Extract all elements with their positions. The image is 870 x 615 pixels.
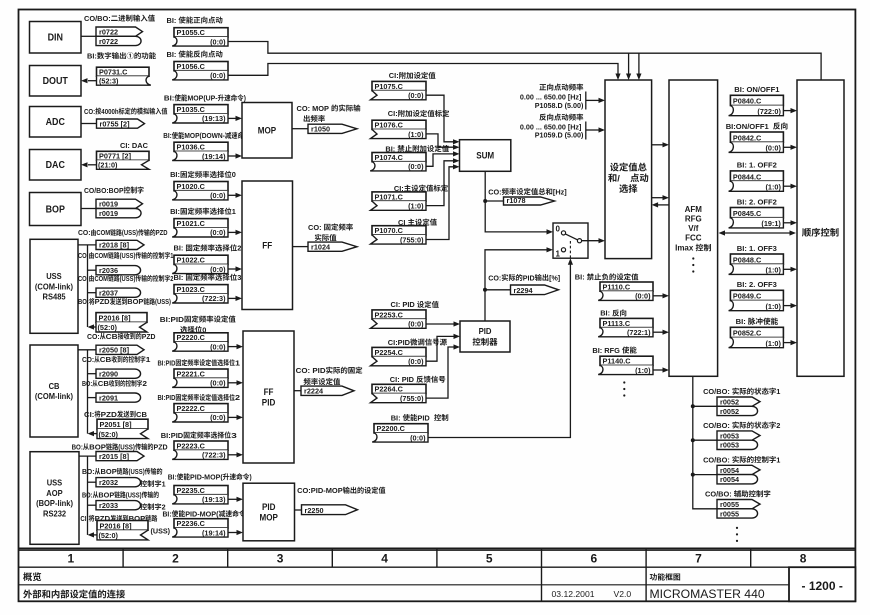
svg-text:(USS): (USS) xyxy=(155,297,171,306)
svg-text:BI:: BI: xyxy=(174,244,184,253)
svg-text:2: 2 xyxy=(237,244,241,253)
svg-text:PID: PID xyxy=(523,273,536,282)
svg-text:V/f: V/f xyxy=(688,224,699,233)
node junction r0053 xyxy=(691,438,695,442)
block MOP xyxy=(242,103,292,159)
wire to r1078 xyxy=(485,200,503,202)
block USS RS485 xyxy=(30,239,78,333)
wire P1070 to SUM xyxy=(426,167,454,240)
block CB xyxy=(30,345,78,437)
svg-text:(722:3): (722:3) xyxy=(202,294,226,303)
svg-text:BOP: BOP xyxy=(101,467,117,476)
svg-text:CO:: CO: xyxy=(78,251,89,260)
wire P1036 to MOP xyxy=(228,155,236,157)
block FF xyxy=(242,181,293,310)
svg-text:(USS): (USS) xyxy=(120,274,136,283)
param P1071.C xyxy=(372,192,426,201)
wire P2236 to PIDMOP xyxy=(228,532,237,534)
param r0722 BO xyxy=(96,36,141,45)
svg-text:P1023.C: P1023.C xyxy=(177,285,206,294)
svg-text:P1070.C: P1070.C xyxy=(375,226,404,235)
svg-text:(COM-link): (COM-link) xyxy=(35,392,73,401)
wire USS bus vertical xyxy=(87,245,89,327)
block DIN xyxy=(30,22,82,54)
svg-text:4000h: 4000h xyxy=(101,107,118,116)
switch dashed control line xyxy=(569,241,571,258)
svg-text:P1020.C: P1020.C xyxy=(177,182,206,191)
svg-text:P2223.C: P2223.C xyxy=(177,441,206,450)
svg-text:CO/BO:: CO/BO: xyxy=(703,387,730,396)
svg-text:CI:PID: CI:PID xyxy=(388,338,411,347)
wire bus to r2032 xyxy=(88,481,97,483)
switch lever xyxy=(565,234,577,240)
wire P1056 to selector xyxy=(228,64,618,77)
svg-text:BI:: BI: xyxy=(575,273,585,282)
param P2223.C xyxy=(174,441,228,450)
wire AFM bottom vertical xyxy=(693,376,717,509)
wire P1140 to AFM xyxy=(653,369,663,371)
svg-text:P0848.C: P0848.C xyxy=(733,255,762,264)
param P2253.C xyxy=(372,310,426,319)
svg-text:(0:0): (0:0) xyxy=(635,292,651,301)
wire P1020 to FF xyxy=(228,194,236,196)
wire selector to AFM 2 xyxy=(652,197,663,199)
wire jog rev arrow xyxy=(586,129,599,131)
svg-text:(BOP-link): (BOP-link) xyxy=(36,499,73,508)
block AFM RFG Vf FCC Imax xyxy=(669,80,718,376)
wire FFPID to r2224 xyxy=(294,390,301,392)
svg-text:P1059.D (5.00): P1059.D (5.00) xyxy=(535,131,584,140)
svg-text:BOP: BOP xyxy=(127,297,143,306)
wire USS bus stub xyxy=(78,244,96,246)
svg-text:ADC: ADC xyxy=(46,117,65,128)
svg-text:CO: MOP: CO: MOP xyxy=(297,104,330,113)
svg-text:(0:0): (0:0) xyxy=(766,144,782,153)
svg-text:(0:0): (0:0) xyxy=(408,357,424,366)
svg-text:P2200.C: P2200.C xyxy=(377,424,406,433)
svg-text:(USS): (USS) xyxy=(118,442,135,451)
label selector line2 xyxy=(608,173,616,182)
svg-text:r2037: r2037 xyxy=(99,289,118,298)
svg-text:CO/BO:: CO/BO: xyxy=(703,421,730,430)
svg-text:(722:0): (722:0) xyxy=(757,107,781,116)
switch contact out xyxy=(577,239,581,243)
svg-text:P1071.C: P1071.C xyxy=(375,192,404,201)
switch contact 0 xyxy=(561,231,565,235)
svg-text:P1036.C: P1036.C xyxy=(177,143,206,152)
param r2036 xyxy=(96,266,141,275)
svg-text:r1078: r1078 xyxy=(507,196,526,205)
wire bus to r2036 xyxy=(88,269,97,271)
svg-text:P1140.C: P1140.C xyxy=(603,357,632,366)
svg-text:PID: PID xyxy=(417,413,430,422)
block DAC xyxy=(30,150,82,181)
table row line xyxy=(19,566,856,568)
svg-text:r0053: r0053 xyxy=(720,431,739,440)
param r1024 xyxy=(308,242,357,251)
param P1113.C xyxy=(600,318,653,327)
wire P1076 to SUM xyxy=(426,134,454,147)
svg-text:BI: ON/OFF1: BI: ON/OFF1 xyxy=(734,85,780,94)
param r2050 [8] xyxy=(96,345,144,354)
svg-text:BO:: BO: xyxy=(82,490,93,499)
svg-text:USS: USS xyxy=(46,272,62,281)
param r2033 xyxy=(96,501,141,510)
svg-text:0: 0 xyxy=(556,225,561,234)
svg-text:PZD: PZD xyxy=(154,442,168,451)
svg-text:r2090: r2090 xyxy=(99,370,118,379)
svg-text:P1035.C: P1035.C xyxy=(177,105,206,114)
svg-text:r0053: r0053 xyxy=(720,441,739,450)
svg-text:2: 2 xyxy=(172,552,179,566)
svg-text:(COM-link): (COM-link) xyxy=(35,282,73,291)
svg-text:r2294: r2294 xyxy=(514,286,534,295)
svg-text:P0731.C: P0731.C xyxy=(99,67,128,76)
param P2016 [8] upper xyxy=(96,313,147,323)
svg-text:- 1200 -: - 1200 - xyxy=(802,579,843,593)
param P2016 [8] lower xyxy=(97,521,148,531)
wire AOP bus vertical xyxy=(87,456,89,535)
svg-text:Imax: Imax xyxy=(675,244,694,253)
svg-text:3: 3 xyxy=(277,552,284,566)
svg-text:r0019: r0019 xyxy=(99,200,118,209)
svg-text:03.12.2001: 03.12.2001 xyxy=(552,589,595,599)
svg-text:r0054: r0054 xyxy=(720,475,740,484)
svg-text:DIN: DIN xyxy=(48,33,63,44)
wire P1021 to FF xyxy=(228,231,236,233)
svg-text:(52:3): (52:3) xyxy=(99,76,119,85)
svg-text:(USS): (USS) xyxy=(120,251,136,260)
wire ADC to r0755 xyxy=(81,123,97,125)
label CO: fixed freq actual l2 xyxy=(315,234,336,241)
svg-text:FF: FF xyxy=(262,240,272,250)
svg-text:P1022.C: P1022.C xyxy=(177,256,206,265)
svg-text:DAC: DAC xyxy=(46,160,65,171)
svg-text:(1:0): (1:0) xyxy=(766,266,782,275)
wire PID up to switch xyxy=(485,250,547,321)
svg-text:r0755 [2]: r0755 [2] xyxy=(100,119,131,128)
label ctrl word 2 xyxy=(140,503,161,510)
svg-text:1: 1 xyxy=(235,358,240,367)
svg-text:BI: 2. OFF2: BI: 2. OFF2 xyxy=(737,197,777,206)
svg-text:P2253.C: P2253.C xyxy=(375,310,404,319)
svg-text:1: 1 xyxy=(232,207,236,216)
svg-text:(1:0): (1:0) xyxy=(766,339,782,348)
block PID MOP xyxy=(243,483,295,541)
dots in AFM xyxy=(692,257,694,259)
svg-text:CB: CB xyxy=(49,382,60,391)
param r2037 xyxy=(96,288,141,297)
svg-text:(19:14): (19:14) xyxy=(202,152,226,161)
wire switch output xyxy=(582,240,599,242)
svg-text:(0:0): (0:0) xyxy=(210,228,226,237)
wire P2254 to PID xyxy=(426,336,454,361)
svg-text:BI: 1. OFF3: BI: 1. OFF3 xyxy=(737,244,777,253)
wire to r2294 xyxy=(485,289,511,291)
box page number xyxy=(789,567,855,601)
wire P1023 to FF xyxy=(228,297,236,299)
svg-text:P0771 [2]: P0771 [2] xyxy=(99,152,132,161)
label CO: PID actual fixed l2 xyxy=(304,378,341,385)
param r2091 xyxy=(96,393,141,402)
wire BOP to r0019 xyxy=(81,208,96,210)
param P2254.C xyxy=(372,347,426,356)
param P1070.C xyxy=(372,226,426,235)
param r2032 xyxy=(96,478,141,487)
dots below P1140 xyxy=(623,381,625,383)
param P1076.C xyxy=(372,120,426,129)
svg-text:(19:1): (19:1) xyxy=(761,219,781,228)
svg-text:BI: 2. OFF3: BI: 2. OFF3 xyxy=(737,280,777,289)
param P1035.C xyxy=(174,105,228,114)
svg-text:USS: USS xyxy=(47,479,63,488)
wire FF to r1024 xyxy=(293,246,309,248)
svg-text:r2050 [8]: r2050 [8] xyxy=(99,346,130,355)
svg-text:(1:0): (1:0) xyxy=(408,202,424,211)
block BOP xyxy=(30,193,82,226)
wire P2223 to FFPID xyxy=(228,454,237,456)
svg-text:CO:: CO: xyxy=(488,187,501,196)
svg-text:BI:: BI: xyxy=(87,51,97,60)
svg-text:CI: PID: CI: PID xyxy=(390,375,415,384)
wire P1071 to SUM xyxy=(426,161,454,206)
param P1021.C xyxy=(174,219,228,228)
switch contact 1 xyxy=(561,248,565,252)
svg-text:P2051 [8]: P2051 [8] xyxy=(100,420,133,429)
svg-text:8: 8 xyxy=(800,552,807,566)
wire CB bus stub xyxy=(78,349,96,351)
svg-text:CI: PID: CI: PID xyxy=(391,300,416,309)
svg-text:CO:: CO: xyxy=(84,107,95,116)
svg-text:(0:0): (0:0) xyxy=(408,320,424,329)
svg-text:7: 7 xyxy=(695,552,702,566)
svg-text:CO:: CO: xyxy=(82,355,94,364)
svg-text:CO:: CO: xyxy=(308,223,322,232)
svg-text:BI:: BI: xyxy=(174,273,184,282)
param r2224 xyxy=(301,386,354,395)
wire P2016b to AOP bus xyxy=(93,534,97,536)
svg-text:1: 1 xyxy=(776,455,780,464)
svg-text:BI:: BI: xyxy=(736,317,746,326)
block USS AOP xyxy=(30,452,79,545)
table mid line xyxy=(19,584,790,586)
block SUM xyxy=(460,140,511,172)
wire P1022 to FF xyxy=(228,268,236,270)
svg-text:r0722: r0722 xyxy=(99,37,118,46)
svg-text:P0852.C: P0852.C xyxy=(733,329,762,338)
param P2221.C xyxy=(174,369,228,378)
wire P2220 to FFPID xyxy=(228,346,237,348)
wire bus to r2091 xyxy=(88,397,97,399)
svg-text:P2235.C: P2235.C xyxy=(177,486,206,495)
svg-text:BI: RFG: BI: RFG xyxy=(592,346,620,355)
param P1036.C xyxy=(174,142,228,151)
svg-text:P1075.C: P1075.C xyxy=(375,82,404,91)
svg-text:MOP(UP-: MOP(UP- xyxy=(188,94,219,103)
wire SUM down to switch xyxy=(485,171,547,232)
svg-text:BO:: BO: xyxy=(82,379,92,388)
svg-text:(1:0): (1:0) xyxy=(408,130,424,139)
svg-text:P2016 [8]: P2016 [8] xyxy=(99,314,132,323)
svg-text:(52:0): (52:0) xyxy=(99,430,119,439)
wire bus to r2037 xyxy=(88,292,97,294)
svg-text:(USS): (USS) xyxy=(151,527,171,536)
svg-text:CI:: CI: xyxy=(84,410,94,419)
svg-text:CO/BO:BOP: CO/BO:BOP xyxy=(84,186,124,195)
svg-text:3: 3 xyxy=(231,431,237,440)
svg-text:CB: CB xyxy=(136,410,147,419)
param P2051 [8] xyxy=(97,419,148,429)
svg-text:MOP(DOWN-: MOP(DOWN- xyxy=(184,131,225,140)
svg-text:r0052: r0052 xyxy=(720,398,739,407)
label selector line1 xyxy=(610,163,647,172)
wire P1113 to AFM xyxy=(653,331,663,333)
svg-text:BI:: BI: xyxy=(163,509,172,518)
svg-text:MOP: MOP xyxy=(260,512,279,522)
svg-text:[%]: [%] xyxy=(549,273,561,282)
svg-text:1: 1 xyxy=(146,355,151,364)
label title connections xyxy=(23,590,125,599)
svg-text:r1024: r1024 xyxy=(311,243,331,252)
param P1056.C xyxy=(174,62,228,71)
svg-text:COM: COM xyxy=(96,228,110,237)
label overview xyxy=(23,572,41,581)
wire P1075 to SUM xyxy=(426,95,454,142)
svg-text:P0840.C: P0840.C xyxy=(733,97,762,106)
svg-text:BOP: BOP xyxy=(46,205,66,216)
svg-text:P1058.D (5.00): P1058.D (5.00) xyxy=(535,101,584,110)
node SUM-r1078 junction xyxy=(483,199,487,203)
param P1075.C xyxy=(372,81,426,90)
svg-text:4: 4 xyxy=(381,552,388,566)
param r1050 xyxy=(308,124,357,133)
svg-text:(21:0): (21:0) xyxy=(98,161,118,170)
label jog fwd freq xyxy=(539,84,583,91)
block setpoint-jog selector xyxy=(605,80,652,259)
param P1022.C xyxy=(174,255,228,264)
svg-text:r0054: r0054 xyxy=(720,466,740,475)
block DOUT xyxy=(30,66,82,97)
wire P2264 to PID xyxy=(426,347,454,398)
wire P1055 to selector xyxy=(228,42,821,81)
svg-text:0: 0 xyxy=(232,170,236,179)
wire bus to r2033 xyxy=(88,504,97,506)
param P0731.C xyxy=(97,67,150,76)
svg-text:P2220.C: P2220.C xyxy=(177,333,206,342)
svg-text:CI:: CI: xyxy=(389,71,399,80)
svg-text:P2222.C: P2222.C xyxy=(177,404,206,413)
svg-text:1: 1 xyxy=(556,250,561,259)
svg-text:P1110.C: P1110.C xyxy=(603,282,631,291)
svg-text:(1:0): (1:0) xyxy=(766,183,782,192)
wire P0731 to DOUT xyxy=(88,80,97,82)
svg-text:BI:ON/OFF1: BI:ON/OFF1 xyxy=(726,122,770,131)
svg-text:r2015 [8]: r2015 [8] xyxy=(99,452,130,461)
label CO: MOP actual output l2 xyxy=(304,115,325,122)
tick jog rev xyxy=(585,122,587,140)
param r0755 [2] xyxy=(97,119,145,128)
svg-text:PID: PID xyxy=(262,397,276,407)
wire P2051 to CB bus xyxy=(93,433,97,435)
param P2220.C xyxy=(174,333,228,342)
svg-text:(0:0): (0:0) xyxy=(210,37,226,46)
svg-text:r2033: r2033 xyxy=(99,501,118,510)
label sequence control text xyxy=(802,228,839,237)
svg-text:BI:: BI: xyxy=(600,309,610,318)
svg-text:FCC: FCC xyxy=(685,234,702,243)
label selector line3 xyxy=(619,184,637,193)
svg-text:P2236.C: P2236.C xyxy=(177,519,206,528)
svg-text:r0055: r0055 xyxy=(720,500,739,509)
label function diagram xyxy=(650,573,680,580)
svg-text:BI:PID: BI:PID xyxy=(158,358,176,367)
svg-text:DOUT: DOUT xyxy=(43,76,68,87)
svg-text:CO:PID-MOP: CO:PID-MOP xyxy=(297,486,343,495)
svg-text:BI:: BI: xyxy=(167,16,177,25)
svg-text:RS232: RS232 xyxy=(43,509,67,518)
svg-text:r0722: r0722 xyxy=(99,28,118,37)
svg-text:P2254.C: P2254.C xyxy=(375,348,404,357)
svg-text:P2016 [8]: P2016 [8] xyxy=(100,521,133,530)
svg-text:1: 1 xyxy=(162,479,166,488)
svg-text:BI:: BI: xyxy=(163,131,171,140)
svg-text:CB: CB xyxy=(100,355,112,364)
svg-text:(USS): (USS) xyxy=(129,467,146,476)
svg-text:r0055: r0055 xyxy=(720,509,739,518)
svg-text:(1:0): (1:0) xyxy=(635,366,651,375)
block PID controller xyxy=(460,321,510,352)
svg-text:BI: 1. OFF2: BI: 1. OFF2 xyxy=(737,161,777,170)
wire DIN to r0722 xyxy=(81,35,96,37)
svg-text:(USS): (USS) xyxy=(122,228,139,237)
param P2222.C xyxy=(174,404,228,413)
svg-text:CO:: CO: xyxy=(488,273,501,282)
svg-text:(755:0): (755:0) xyxy=(400,235,424,244)
svg-text:BI:PID: BI:PID xyxy=(161,431,184,440)
wire AFM-seq bidirectional xyxy=(724,232,792,234)
svg-text:BI:: BI: xyxy=(391,413,401,422)
param P1023.C xyxy=(174,285,228,294)
svg-text:CO:: CO: xyxy=(87,332,100,341)
svg-text:BI:: BI: xyxy=(168,473,177,482)
svg-text:CO:: CO: xyxy=(78,228,91,237)
svg-text:BO:: BO: xyxy=(72,442,83,451)
wire P2016 to USS bus xyxy=(93,326,96,328)
svg-text:(755:0): (755:0) xyxy=(400,394,424,403)
table top line xyxy=(19,547,856,549)
param P1055.C xyxy=(174,28,228,37)
label jog rev freq xyxy=(539,114,583,121)
svg-text:PID-MOP(: PID-MOP( xyxy=(190,473,223,482)
svg-text:r2250: r2250 xyxy=(305,506,324,515)
svg-text:2: 2 xyxy=(142,379,147,388)
wire P2253 to PID xyxy=(426,323,454,325)
wire P2221 to FFPID xyxy=(228,382,237,384)
param P1020.C xyxy=(174,182,228,191)
block FF PID xyxy=(243,331,294,463)
svg-text:2: 2 xyxy=(776,421,780,430)
svg-text:r1050: r1050 xyxy=(311,125,330,134)
svg-text:BI:: BI: xyxy=(164,94,175,103)
wire PIDMOP to r2250 xyxy=(295,509,302,511)
wire P0771 to DAC xyxy=(88,164,97,166)
svg-text:P0844.C: P0844.C xyxy=(733,172,762,181)
svg-text:V2.0: V2.0 xyxy=(614,589,632,599)
param r2015 [8] xyxy=(96,452,144,461)
wire AOP bus stub xyxy=(79,455,96,457)
tick jog fwd xyxy=(585,92,587,110)
param r0019 CO xyxy=(96,199,143,208)
